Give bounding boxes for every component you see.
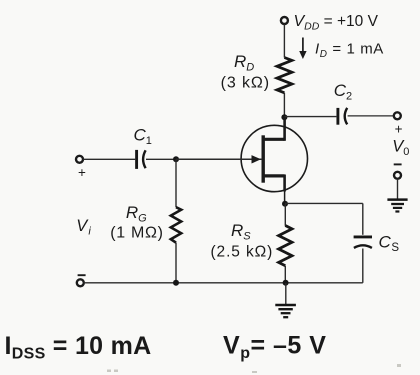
svg-text:RS: RS — [231, 221, 251, 243]
svg-text:+: + — [78, 165, 86, 180]
terminal input plus — [76, 156, 83, 163]
svg-text:C1: C1 — [134, 126, 152, 147]
wire drain node to C2 — [284, 116, 336, 118]
resistor RS — [279, 226, 292, 266]
terminal output plus — [394, 112, 401, 119]
terminal output minus — [394, 172, 401, 179]
wire RD to drain node — [283, 93, 285, 118]
capacitor CS — [354, 237, 372, 248]
svg-text:IDSS = 10 mA: IDSS = 10 mA — [5, 332, 152, 363]
wire RS node to ground — [285, 283, 287, 304]
wire CS to bottom rail — [362, 249, 364, 283]
svg-text:V0: V0 — [392, 138, 409, 158]
current arrow ID — [299, 38, 306, 60]
resistor RD — [277, 58, 292, 93]
wire input terminal to C1 — [83, 158, 135, 160]
transistor Q1 JFET — [241, 117, 307, 203]
resistor RG — [171, 207, 181, 242]
wire bottom rail — [84, 282, 363, 284]
svg-text:(1 MΩ): (1 MΩ) — [110, 225, 164, 242]
svg-text:C2: C2 — [334, 81, 352, 102]
wire gate with arrow — [176, 155, 262, 163]
svg-text:CS: CS — [379, 233, 400, 254]
node RG bottom junction — [173, 280, 179, 286]
capacitor C1 — [137, 150, 146, 169]
ground source — [275, 305, 296, 317]
wire C2 to output terminal — [348, 115, 394, 117]
svg-text:RG: RG — [126, 203, 147, 225]
svg-text:ID = 1 mA: ID = 1 mA — [315, 41, 384, 60]
svg-text:(2.5 kΩ): (2.5 kΩ) — [211, 244, 274, 261]
label input minus sign — [78, 274, 86, 276]
wire output minus to ground — [397, 179, 399, 199]
capacitor C2 — [338, 108, 347, 125]
node RS bottom junction — [283, 280, 289, 286]
label output minus sign — [394, 163, 402, 165]
node source junction — [282, 201, 288, 207]
wire VDD terminal to RD — [283, 24, 285, 57]
svg-text:Vp= –5 V: Vp= –5 V — [223, 332, 326, 363]
wire CS top vertical — [362, 203, 364, 234]
terminal VDD — [281, 17, 288, 24]
svg-text:VDD = +10 V: VDD = +10 V — [294, 13, 379, 32]
node gate junction — [173, 156, 179, 162]
terminal input minus — [77, 279, 84, 286]
node drain junction — [281, 114, 287, 120]
svg-text:+: + — [395, 121, 403, 136]
wire gate node to RG — [175, 159, 177, 207]
svg-text:RD: RD — [234, 52, 254, 74]
ground output — [387, 200, 407, 212]
wire C1 to gate node — [146, 158, 176, 160]
wire RS to bottom rail — [284, 266, 286, 283]
wire RG to bottom rail — [175, 243, 177, 283]
stray cropped caption marks — [107, 364, 401, 373]
svg-text:(3 kΩ): (3 kΩ) — [221, 74, 270, 91]
svg-text:Vi: Vi — [76, 217, 91, 238]
wire source node to CS top — [285, 202, 363, 204]
wire source node to RS — [284, 204, 286, 226]
